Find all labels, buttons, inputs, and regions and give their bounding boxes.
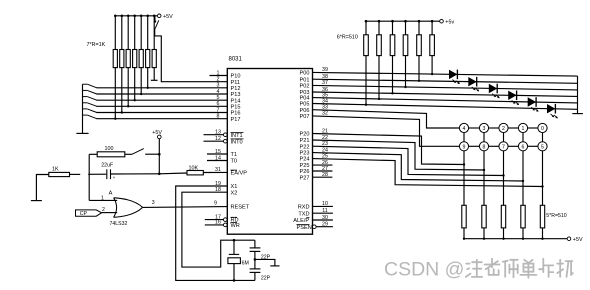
svg-text:+5V: +5V: [152, 130, 162, 136]
svg-text:1: 1: [522, 126, 525, 132]
svg-text:P22: P22: [300, 144, 310, 150]
svg-text:WR: WR: [231, 223, 240, 229]
svg-text:TXD: TXD: [298, 211, 309, 217]
svg-text:P17: P17: [231, 117, 241, 123]
svg-text:INT1: INT1: [231, 133, 243, 139]
svg-text:5: 5: [541, 144, 544, 150]
svg-text:P13: P13: [231, 92, 241, 98]
svg-text:P07: P07: [300, 114, 310, 120]
svg-text:0: 0: [541, 126, 544, 132]
svg-text:P11: P11: [231, 80, 241, 86]
svg-text:100: 100: [105, 146, 114, 152]
svg-text:9: 9: [463, 144, 466, 150]
svg-text:8031: 8031: [229, 57, 243, 63]
svg-text:ALE/P: ALE/P: [293, 218, 309, 224]
svg-text:6M: 6M: [242, 260, 249, 266]
svg-text:T0: T0: [231, 159, 238, 165]
svg-text:PSEN: PSEN: [297, 225, 312, 231]
svg-text:+5V: +5V: [163, 14, 173, 20]
svg-text:5*R=510: 5*R=510: [546, 213, 566, 219]
svg-text:P16: P16: [231, 111, 241, 117]
svg-text:22P: 22P: [261, 275, 271, 281]
svg-text:3: 3: [483, 126, 486, 132]
svg-text:P21: P21: [300, 138, 310, 144]
svg-text:8: 8: [483, 144, 486, 150]
svg-text:9: 9: [214, 201, 217, 207]
svg-text:CP: CP: [80, 211, 88, 217]
svg-text:7: 7: [502, 144, 505, 150]
svg-text:P20: P20: [300, 132, 310, 138]
svg-text:P26: P26: [300, 169, 310, 175]
svg-text:P14: P14: [231, 98, 241, 104]
svg-text:P27: P27: [300, 175, 310, 181]
svg-text:P02: P02: [300, 84, 310, 90]
svg-text:X2: X2: [231, 190, 238, 196]
svg-text:22uF: 22uF: [101, 162, 113, 168]
svg-text:P10: P10: [231, 74, 241, 80]
svg-text:6*R=510: 6*R=510: [337, 35, 358, 41]
svg-text:6: 6: [522, 144, 525, 150]
svg-text:P06: P06: [300, 108, 310, 114]
svg-text:4: 4: [463, 126, 466, 132]
svg-text:EA/VP: EA/VP: [231, 171, 248, 177]
svg-text:CSDN @: CSDN @: [384, 259, 464, 281]
svg-text:1K: 1K: [52, 166, 59, 172]
svg-text:RXD: RXD: [298, 205, 310, 211]
svg-text:X1: X1: [231, 184, 238, 190]
svg-text:P15: P15: [231, 104, 241, 110]
svg-text:P00: P00: [300, 71, 310, 77]
svg-text:P24: P24: [300, 157, 310, 163]
svg-text:3: 3: [152, 200, 155, 206]
svg-text:T1: T1: [231, 152, 238, 158]
svg-text:7*R=1K: 7*R=1K: [87, 42, 106, 48]
svg-text:INT0: INT0: [231, 139, 243, 145]
svg-text:+: +: [113, 175, 116, 180]
svg-text:P01: P01: [300, 77, 310, 83]
svg-text:22P: 22P: [261, 255, 271, 261]
svg-text:+5v: +5v: [445, 20, 454, 26]
svg-text:RESET: RESET: [231, 205, 250, 211]
svg-text:P05: P05: [300, 102, 310, 108]
svg-text:1: 1: [101, 195, 104, 201]
svg-text:+5V: +5V: [573, 237, 583, 243]
svg-text:10K: 10K: [189, 165, 199, 171]
svg-text:2: 2: [502, 126, 505, 132]
svg-text:74LS32: 74LS32: [110, 221, 128, 227]
svg-text:P12: P12: [231, 86, 241, 92]
svg-text:A: A: [109, 191, 113, 197]
